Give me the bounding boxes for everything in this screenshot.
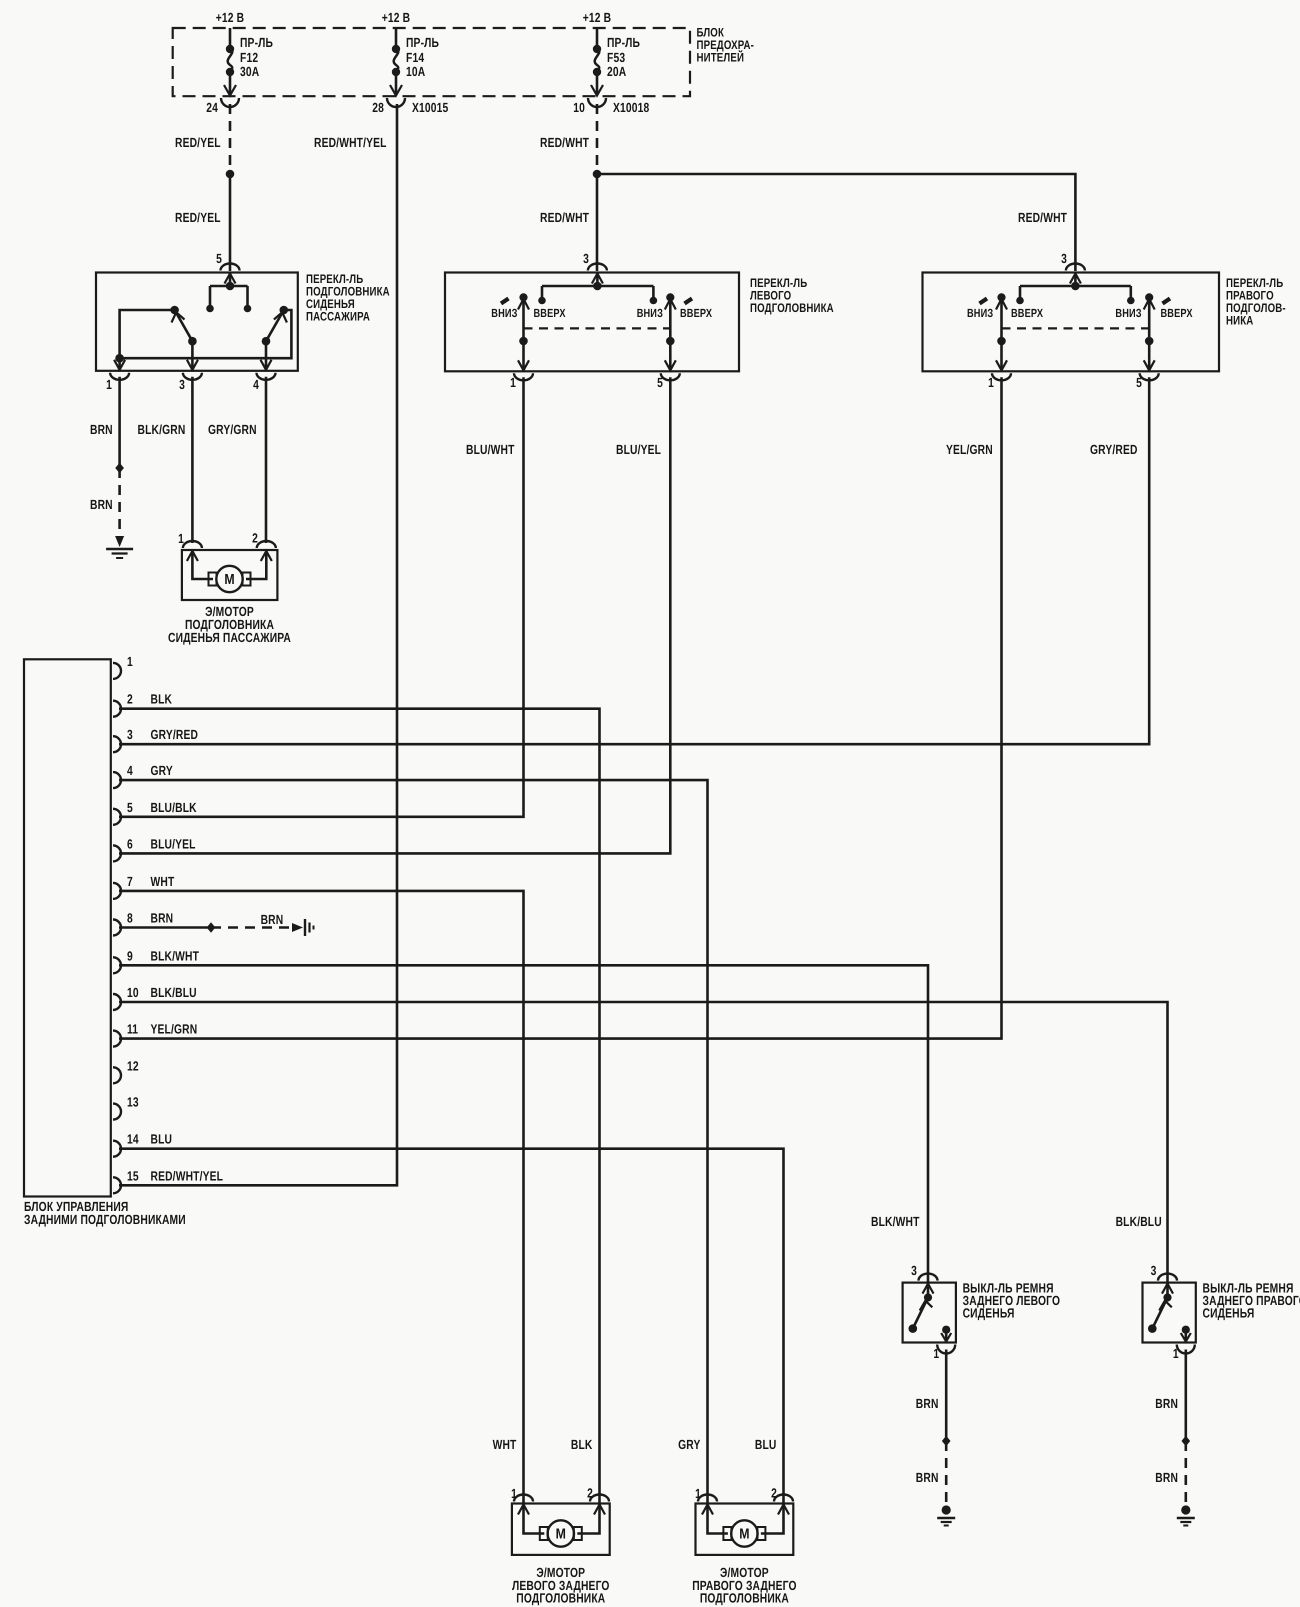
svg-text:BRN: BRN <box>916 1396 939 1411</box>
svg-text:1: 1 <box>127 654 133 669</box>
svg-text:GRY: GRY <box>151 763 173 778</box>
svg-text:8: 8 <box>127 911 133 926</box>
svg-text:GRY: GRY <box>678 1437 700 1452</box>
svg-text:ВНИЗ: ВНИЗ <box>967 306 993 320</box>
svg-text:ВНИЗ: ВНИЗ <box>637 306 663 320</box>
svg-text:ВНИЗ: ВНИЗ <box>491 306 517 320</box>
svg-text:1: 1 <box>695 1486 701 1501</box>
svg-text:+12 В: +12 В <box>216 10 245 25</box>
svg-text:BRN: BRN <box>1155 1396 1178 1411</box>
svg-text:4: 4 <box>127 763 133 778</box>
svg-text:13: 13 <box>127 1095 139 1110</box>
svg-text:3: 3 <box>583 251 589 266</box>
svg-text:3: 3 <box>1151 1263 1157 1278</box>
svg-text:12: 12 <box>127 1058 139 1073</box>
svg-text:10A: 10A <box>406 64 426 79</box>
svg-text:RED/YEL: RED/YEL <box>175 210 221 225</box>
svg-text:ПР-ЛЬ: ПР-ЛЬ <box>607 35 640 50</box>
svg-text:28: 28 <box>372 100 384 115</box>
svg-text:BLU/YEL: BLU/YEL <box>616 442 661 457</box>
svg-text:1: 1 <box>1173 1346 1179 1361</box>
svg-text:3: 3 <box>179 377 185 392</box>
svg-text:2: 2 <box>587 1486 593 1501</box>
svg-text:ЗАДНИМИ ПОДГОЛОВНИКАМИ: ЗАДНИМИ ПОДГОЛОВНИКАМИ <box>24 1212 186 1227</box>
svg-text:BRN: BRN <box>90 497 113 512</box>
svg-text:1: 1 <box>106 377 112 392</box>
svg-text:RED/WHT: RED/WHT <box>540 135 589 150</box>
svg-text:BRN: BRN <box>916 1470 939 1485</box>
svg-text:3: 3 <box>127 727 133 742</box>
svg-text:BRN: BRN <box>90 422 113 437</box>
svg-text:BRN: BRN <box>1155 1470 1178 1485</box>
svg-text:2: 2 <box>127 692 133 707</box>
svg-text:GRY/RED: GRY/RED <box>1090 442 1138 457</box>
svg-text:BLU/WHT: BLU/WHT <box>466 442 515 457</box>
svg-text:X10018: X10018 <box>613 100 649 115</box>
svg-text:30A: 30A <box>240 64 260 79</box>
svg-text:1: 1 <box>178 531 184 546</box>
svg-text:BLU: BLU <box>151 1132 173 1147</box>
svg-text:ПОДГОЛОВНИКА: ПОДГОЛОВНИКА <box>516 1591 605 1606</box>
svg-text:ВВЕРХ: ВВЕРХ <box>680 306 712 320</box>
svg-text:BLK/BLU: BLK/BLU <box>151 985 197 1000</box>
svg-text:2: 2 <box>771 1486 777 1501</box>
svg-text:11: 11 <box>127 1022 138 1037</box>
svg-text:3: 3 <box>911 1263 917 1278</box>
svg-text:24: 24 <box>206 100 218 115</box>
svg-text:+12 В: +12 В <box>583 10 612 25</box>
svg-text:RED/WHT/YEL: RED/WHT/YEL <box>151 1168 224 1183</box>
svg-text:ПОДГОЛОВНИКА: ПОДГОЛОВНИКА <box>750 301 834 315</box>
svg-text:M: M <box>224 572 234 588</box>
svg-text:BLK/BLU: BLK/BLU <box>1116 1214 1162 1229</box>
svg-text:WHT: WHT <box>493 1437 517 1452</box>
svg-text:BLU: BLU <box>755 1437 777 1452</box>
svg-text:M: M <box>556 1527 566 1543</box>
svg-text:НИТЕЛЕЙ: НИТЕЛЕЙ <box>697 50 745 65</box>
svg-text:RED/WHT/YEL: RED/WHT/YEL <box>314 135 387 150</box>
svg-text:BLU/YEL: BLU/YEL <box>151 836 196 851</box>
svg-text:СИДЕНЬЯ: СИДЕНЬЯ <box>1203 1306 1255 1321</box>
svg-text:1: 1 <box>511 1486 517 1501</box>
svg-text:3: 3 <box>1061 251 1067 266</box>
svg-text:X10015: X10015 <box>412 100 448 115</box>
svg-text:GRY/RED: GRY/RED <box>151 727 199 742</box>
svg-text:14: 14 <box>127 1132 139 1147</box>
svg-text:+12 В: +12 В <box>382 10 411 25</box>
svg-text:15: 15 <box>127 1168 139 1183</box>
svg-text:5: 5 <box>127 800 133 815</box>
svg-text:1: 1 <box>933 1346 939 1361</box>
svg-text:YEL/GRN: YEL/GRN <box>151 1022 198 1037</box>
svg-text:BRN: BRN <box>151 911 174 926</box>
svg-text:10: 10 <box>573 100 585 115</box>
svg-text:1: 1 <box>510 375 516 390</box>
svg-text:ПОДГОЛОВНИКА: ПОДГОЛОВНИКА <box>700 1591 789 1606</box>
svg-text:ПАССАЖИРА: ПАССАЖИРА <box>306 310 370 324</box>
svg-text:20A: 20A <box>607 64 627 79</box>
svg-text:WHT: WHT <box>151 874 175 889</box>
svg-text:5: 5 <box>657 375 663 390</box>
svg-text:1: 1 <box>988 375 994 390</box>
svg-text:GRY/GRN: GRY/GRN <box>208 422 257 437</box>
svg-text:YEL/GRN: YEL/GRN <box>946 442 993 457</box>
svg-text:10: 10 <box>127 985 139 1000</box>
svg-text:BRN: BRN <box>261 912 284 927</box>
svg-text:ПР-ЛЬ: ПР-ЛЬ <box>406 35 439 50</box>
svg-text:BLK/GRN: BLK/GRN <box>138 422 186 437</box>
svg-text:BLK/WHT: BLK/WHT <box>151 948 200 963</box>
svg-text:ВВЕРХ: ВВЕРХ <box>534 306 566 320</box>
svg-text:2: 2 <box>252 531 258 546</box>
svg-text:BLK: BLK <box>151 692 173 707</box>
svg-text:F14: F14 <box>406 50 425 65</box>
svg-text:BLK: BLK <box>571 1437 593 1452</box>
svg-text:НИКА: НИКА <box>1226 314 1253 328</box>
svg-text:7: 7 <box>127 874 133 889</box>
svg-text:ВНИЗ: ВНИЗ <box>1115 306 1141 320</box>
svg-text:9: 9 <box>127 948 133 963</box>
svg-text:ПР-ЛЬ: ПР-ЛЬ <box>240 35 273 50</box>
svg-text:RED/YEL: RED/YEL <box>175 135 221 150</box>
svg-text:6: 6 <box>127 836 133 851</box>
svg-text:СИДЕНЬЯ ПАССАЖИРА: СИДЕНЬЯ ПАССАЖИРА <box>168 630 291 645</box>
svg-text:RED/WHT: RED/WHT <box>1018 210 1067 225</box>
svg-text:4: 4 <box>253 377 259 392</box>
svg-text:ВВЕРХ: ВВЕРХ <box>1011 306 1043 320</box>
svg-text:M: M <box>739 1527 749 1543</box>
svg-text:СИДЕНЬЯ: СИДЕНЬЯ <box>963 1306 1015 1321</box>
svg-text:F12: F12 <box>240 50 258 65</box>
svg-text:RED/WHT: RED/WHT <box>540 210 589 225</box>
svg-text:BLK/WHT: BLK/WHT <box>871 1214 920 1229</box>
svg-text:F53: F53 <box>607 50 625 65</box>
svg-text:ВВЕРХ: ВВЕРХ <box>1161 306 1193 320</box>
svg-text:5: 5 <box>216 251 222 266</box>
svg-text:5: 5 <box>1136 375 1142 390</box>
svg-text:BLU/BLK: BLU/BLK <box>151 800 197 815</box>
